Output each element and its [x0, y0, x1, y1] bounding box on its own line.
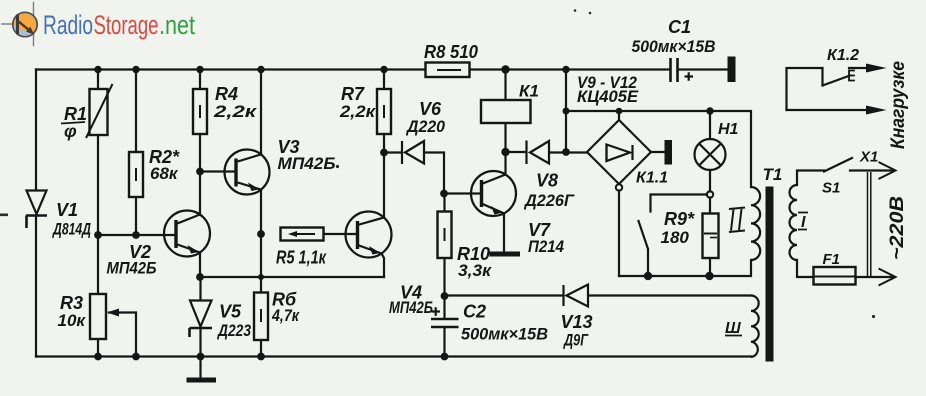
label V5 Д223 [216, 302, 251, 341]
diode V6 [402, 141, 424, 164]
svg-text:R8 510: R8 510 [424, 42, 478, 62]
label R10 3,3к [457, 244, 492, 280]
connector X1 double line [868, 172, 871, 276]
wire: bridge bottom lead [618, 191, 620, 277]
wire: K1 relay column [504, 70, 506, 153]
label R2* 68к [149, 147, 180, 183]
label winding III [725, 320, 742, 337]
node: V7 base junction [440, 190, 448, 198]
wire: rail y=111 to transformer winding II [566, 111, 751, 187]
wire: R4 / V2 collector column [199, 70, 201, 215]
wire: V4 collector column [383, 153, 385, 218]
svg-text:R5 1,1к: R5 1,1к [276, 248, 327, 268]
svg-text:К1: К1 [519, 82, 539, 101]
svg-text:С2: С2 [463, 302, 486, 322]
capacitor C1 [671, 58, 694, 82]
node: R9 bottom junction [705, 272, 713, 280]
node: K1-V8-V7 junction [501, 148, 509, 156]
wire: R5 to V4 base [324, 233, 358, 235]
zener diode V1 [26, 191, 47, 229]
arrow K1.2 bottom [866, 106, 887, 115]
wire: V3 collector column [260, 70, 262, 155]
lamp H1 [695, 139, 726, 198]
wire: bridge column from top bus [565, 70, 567, 153]
wire: R7 junction to V6 [384, 151, 402, 153]
svg-text:V13: V13 [561, 312, 593, 332]
wire: winding I bottom through F1 to X1 [797, 260, 894, 277]
svg-text:~220В: ~220В [887, 196, 908, 260]
resistor R5 [281, 228, 324, 241]
wire: bridge top lead [618, 111, 620, 121]
resistor R8 [426, 63, 470, 78]
arrow X1 top [879, 162, 896, 179]
label V4 МП42Б [389, 283, 433, 318]
node: emitter bus junctions [196, 273, 204, 281]
label V3 МП42Б [278, 137, 336, 173]
svg-text:X1: X1 [859, 149, 878, 166]
wire: V4 emitter wire [382, 254, 385, 278]
svg-text:2,2к: 2,2к [213, 102, 258, 121]
wire: R3 wiper wire [109, 313, 136, 357]
node: top bus junctions [94, 66, 101, 73]
label R3 10к [58, 293, 87, 330]
svg-text:Кнагрузке: Кнагрузке [888, 61, 909, 149]
node: V3 emitter / R5 junction [257, 230, 265, 238]
svg-text:Д223: Д223 [216, 321, 251, 340]
wire: V7 base wire [444, 192, 482, 194]
resistor R7 [377, 89, 391, 134]
scan specks [0, 9, 875, 318]
label R6 4,7к [271, 290, 300, 326]
chassis bar at V7 emitter [490, 252, 521, 257]
node: R10-C2-V13 junction [441, 292, 449, 300]
wire: winding I top lead to S1 [797, 171, 824, 186]
svg-text:С1: С1 [668, 17, 691, 37]
wire: R9 leads [709, 198, 711, 277]
svg-text:R7: R7 [341, 84, 365, 104]
wire: H1 leads [709, 111, 711, 192]
node: V2 base junctions [94, 231, 102, 239]
svg-text:Storage: Storage [94, 10, 159, 40]
label V1 Д814Д [52, 200, 91, 239]
node: K1.1 bottom junction [644, 272, 652, 280]
RadioStorage.net logo [2, 3, 195, 46]
wire: S1 to X1 top [850, 169, 894, 171]
wire: V6 to V7 base junction [424, 153, 444, 194]
wire: R2 column [135, 70, 137, 236]
svg-text:V1: V1 [56, 200, 78, 220]
wire: bottom bus [36, 355, 751, 357]
switch S1 arm [824, 158, 852, 172]
fuse F1 [814, 267, 856, 285]
svg-text:68к: 68к [150, 164, 179, 183]
label R4 2,2к [213, 84, 258, 121]
label V13 Д9Г [561, 312, 593, 350]
svg-text:Radio: Radio [43, 10, 93, 40]
svg-text:3,3к: 3,3к [458, 261, 492, 280]
resistor R2 [129, 152, 143, 197]
wire: top bus [36, 68, 728, 70]
svg-text:К1.1: К1.1 [636, 170, 668, 187]
svg-text:Д9Г: Д9Г [563, 331, 590, 350]
svg-text:2,2к: 2,2к [339, 102, 377, 121]
chassis bar right of bridge [665, 140, 673, 165]
label winding I [798, 213, 808, 232]
arrow K1.2 top [866, 64, 887, 73]
relay coil K1 [481, 100, 531, 123]
wire: V3 base wire [200, 170, 236, 172]
svg-text:V6: V6 [419, 99, 442, 119]
contact K1.2 [787, 68, 851, 110]
svg-text:S1: S1 [822, 180, 840, 197]
wire: K1.1 fixed contact wire [651, 195, 708, 212]
wire: V7 emitter lead [503, 213, 505, 251]
wire: bottom relay wire y=276 [619, 260, 751, 276]
label R1 [61, 104, 87, 141]
svg-text:Т1: Т1 [763, 165, 783, 184]
label R9* 180 [661, 209, 696, 247]
svg-text:МП42Б: МП42Б [389, 298, 433, 317]
svg-text:Ш: Ш [725, 320, 741, 337]
svg-text:П214: П214 [528, 237, 564, 256]
node: bridge left junction [562, 148, 570, 156]
label winding II [729, 208, 745, 233]
resistor R6 [254, 293, 268, 341]
label V6 Д220 [405, 99, 445, 136]
svg-text:Д220: Д220 [405, 117, 445, 136]
svg-text:Н1: Н1 [718, 121, 739, 138]
svg-text:10к: 10к [58, 311, 87, 330]
svg-text:φ: φ [64, 121, 77, 141]
bridge rectifier V9-V12 [587, 120, 651, 191]
transformer winding I [790, 185, 798, 260]
diode V13 [564, 285, 589, 307]
svg-text:К1.2: К1.2 [827, 47, 859, 64]
svg-text:МП42Б: МП42Б [107, 259, 157, 278]
resistor R3 (potentiometer) [90, 294, 119, 339]
wire: emitter bus y=277 [200, 276, 384, 278]
transformer winding II [751, 187, 760, 260]
svg-text:МП42Б: МП42Б [278, 154, 336, 173]
svg-text:R4: R4 [215, 84, 238, 104]
svg-text:4,7к: 4,7к [271, 306, 300, 325]
svg-text:500мк×15В: 500мк×15В [461, 325, 548, 344]
svg-text:500мк×15В: 500мк×15В [632, 37, 716, 56]
transistor V4 [346, 212, 392, 258]
wire: R10 leads [443, 194, 445, 297]
svg-text:Д226Г: Д226Г [523, 191, 575, 210]
transformer T1 core [766, 187, 774, 362]
wire: V2 base wire [98, 234, 176, 236]
svg-text:180: 180 [661, 228, 690, 247]
wire: V5 column [199, 277, 201, 378]
node: R7-V6-V4 junction [380, 149, 388, 157]
label C2 500мк×15В [461, 302, 548, 344]
transformer winding III [751, 296, 759, 358]
transistor V7 [471, 171, 516, 216]
node: rail junctions y=111 [563, 108, 570, 115]
wire: C2 leads [443, 296, 445, 357]
resistor R1 (thermistor) [86, 84, 113, 138]
node: bottom bus junctions [94, 353, 102, 361]
ground below V5 [187, 378, 217, 383]
node: V3 base junction [196, 168, 204, 176]
diode V8 [527, 141, 550, 165]
svg-text:V5: V5 [219, 302, 242, 322]
arrow X1 bottom [879, 269, 896, 286]
chassis bar right of C1 [728, 57, 736, 83]
label V9-V12 КЦ405Е [577, 73, 639, 106]
capacitor C2 [431, 307, 459, 327]
svg-text:V8: V8 [536, 171, 558, 191]
resistor R4 [193, 89, 207, 134]
svg-text:R3: R3 [60, 293, 83, 313]
label V2 МП42Б [107, 242, 157, 278]
label V7 П214 [528, 220, 564, 256]
svg-text:R9*: R9* [664, 209, 695, 229]
resistor R9 [703, 214, 719, 259]
wire: V3 emitter / R6 column [260, 190, 262, 357]
wire: R1 column [97, 70, 99, 357]
svg-text:Д814Д: Д814Д [52, 220, 91, 239]
wire: K1.2 output wires [787, 68, 869, 110]
zener diode V5 [190, 301, 213, 338]
label C1 500мк×15В [632, 17, 716, 56]
wire: K1.1 movable arm [639, 221, 649, 276]
resistor R10 [438, 212, 452, 259]
svg-text:.net: .net [159, 10, 195, 40]
transistor V2 [164, 211, 210, 257]
wire: V2 emitter column [199, 253, 201, 278]
label R7 2,2к [339, 84, 377, 121]
svg-text:КЦ405Е: КЦ405Е [577, 87, 639, 106]
wire: R7 column [383, 70, 385, 153]
wire: node wire y=295.5 (R10/C2 to V13) [445, 294, 564, 296]
wire: bridge right to chassis bar [651, 151, 665, 153]
svg-text:I: I [801, 214, 806, 231]
wire: y=152 rail K1 to V8 to bridge [506, 151, 588, 154]
label V8 Д226Г [523, 171, 575, 211]
wire: V13 to winding III [588, 294, 751, 296]
svg-text:F1: F1 [823, 251, 841, 268]
wire: left edge vertical [35, 70, 37, 357]
transistor V3 [225, 150, 270, 195]
wire: V7 collector column [504, 152, 506, 175]
